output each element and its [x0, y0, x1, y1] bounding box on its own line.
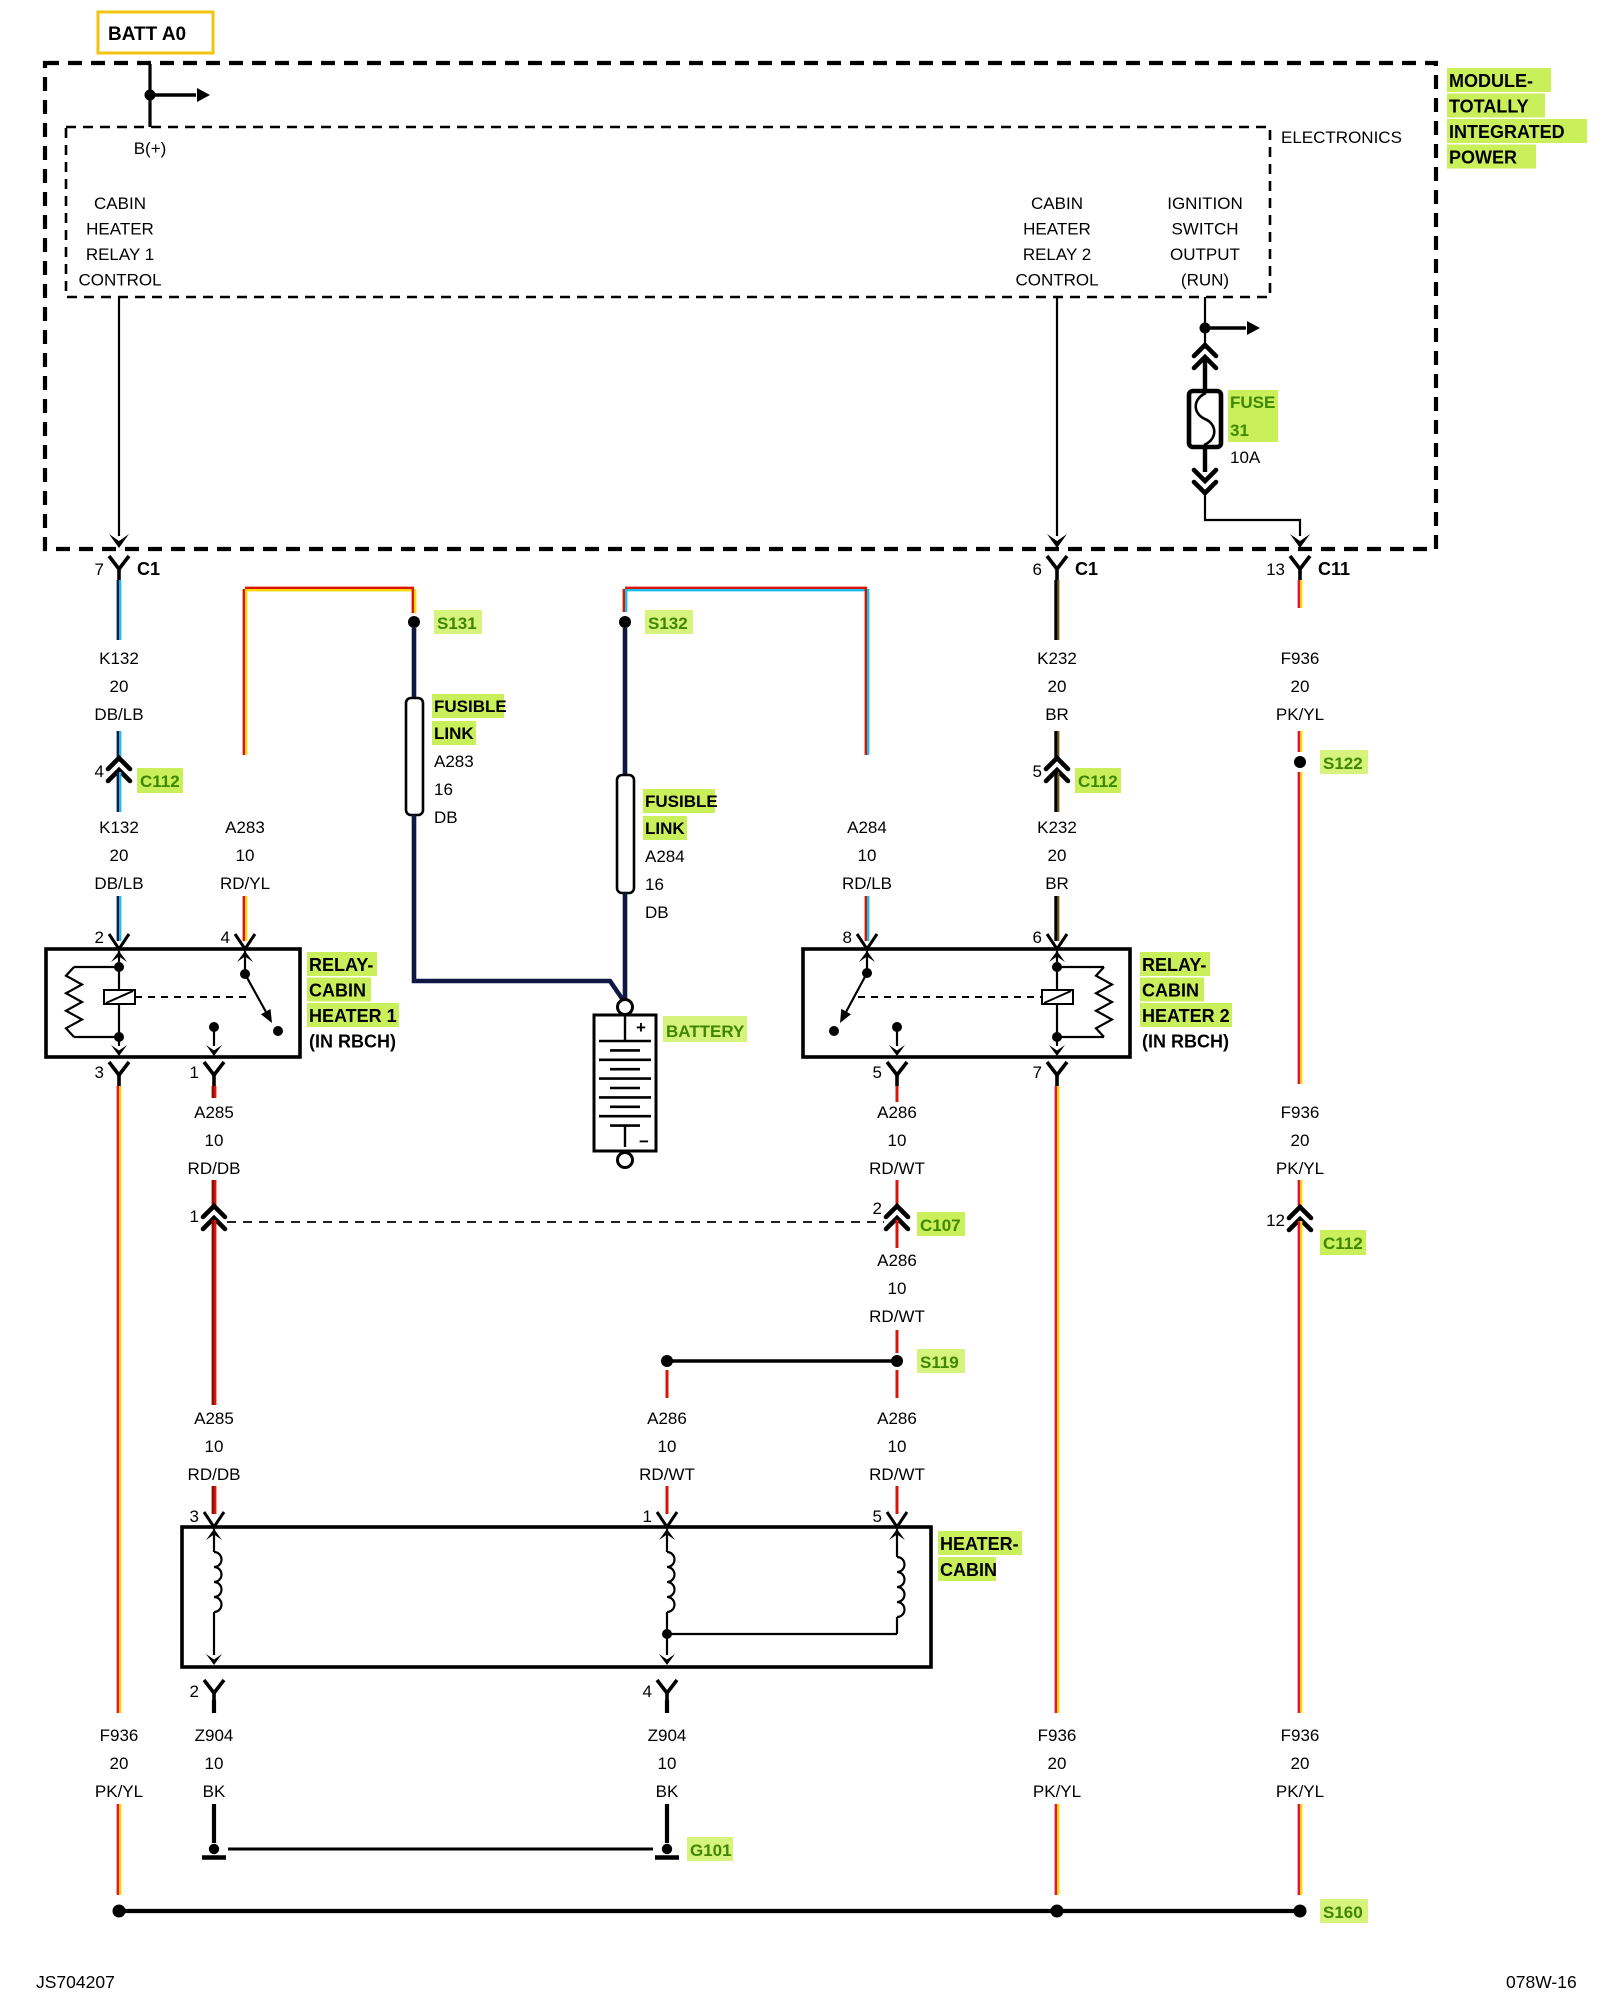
svg-text:HEATER: HEATER: [1023, 220, 1091, 239]
svg-text:BK: BK: [656, 1782, 679, 1801]
wire label A285 10 RD/DB: [188, 1103, 241, 1178]
svg-text:RD/DB: RD/DB: [188, 1159, 241, 1178]
relay 2 coil branch pin 6: [1049, 951, 1065, 972]
relay U1 RELAY-CABIN HEATER 1 body: [46, 949, 300, 1057]
in-line connector above fuse 31: [1194, 328, 1216, 391]
svg-text:C112: C112: [1323, 1234, 1363, 1253]
svg-text:RELAY 2: RELAY 2: [1023, 245, 1091, 264]
ground bus wire: [228, 1848, 653, 1851]
connector pin 1 of relay 1: [190, 1062, 224, 1086]
label RELAY-CABIN HEATER 2 (IN RBCH): [1140, 952, 1232, 1052]
wire DB from S132 to fusible link A284: [623, 628, 628, 775]
svg-text:(IN RBCH): (IN RBCH): [309, 1032, 396, 1052]
wire A286 into connector C107 pin 2: [896, 1180, 899, 1206]
battery G1: [594, 1015, 656, 1151]
svg-text:078W-16: 078W-16: [1506, 1972, 1577, 1992]
svg-text:LINK: LINK: [645, 819, 685, 838]
svg-text:A286: A286: [877, 1103, 917, 1122]
svg-text:10: 10: [858, 846, 877, 865]
svg-text:TOTALLY: TOTALLY: [1449, 97, 1529, 117]
wire label F936 20 PK/YL: [1276, 649, 1324, 724]
connector C107 dashed pairing line: [227, 1221, 884, 1223]
svg-text:S119: S119: [920, 1353, 959, 1372]
splice S132: [619, 616, 631, 628]
relay 1 coil resistor: [66, 967, 119, 1037]
in-line connector below fuse 31: [1194, 447, 1216, 493]
wire A286 below S119 left: [666, 1370, 669, 1398]
svg-text:CONTROL: CONTROL: [1015, 271, 1098, 290]
svg-text:FUSE: FUSE: [1230, 393, 1275, 412]
svg-text:DB/LB: DB/LB: [94, 874, 143, 893]
svg-text:S132: S132: [648, 614, 688, 633]
connector pin 2 of relay cabin heater 1: [95, 928, 129, 949]
wire cabin heater relay 2 control to pin 6 C1: [1047, 297, 1067, 548]
pin function label CABIN HEATER RELAY 1 CONTROL: [78, 194, 161, 290]
relay 1 control dashed link: [135, 996, 248, 998]
connector pin 6 of relay 2: [1033, 928, 1067, 949]
svg-text:POWER: POWER: [1449, 148, 1517, 168]
svg-text:10: 10: [888, 1131, 907, 1150]
value label 10A: [1230, 448, 1261, 467]
connector pin 1 of C107: [190, 1206, 225, 1229]
svg-text:RD/DB: RD/DB: [188, 1465, 241, 1484]
wire F936 20 PK/YL from pin 13 C11: [1299, 580, 1301, 608]
wire label A284 10 RD/LB: [842, 818, 892, 893]
wire A283 10 RD/YL from splice S131 to relay pin 4: [244, 588, 415, 755]
svg-text:A286: A286: [877, 1251, 917, 1270]
inner dashed box - electronics section: [66, 127, 1270, 297]
svg-text:RD/YL: RD/YL: [220, 874, 270, 893]
label ELECTRONICS: [1281, 128, 1402, 147]
node junction ignition run feed: [1200, 323, 1211, 334]
svg-text:1: 1: [190, 1063, 199, 1082]
svg-text:−: −: [639, 1132, 649, 1151]
connector pin 2 of heater: [190, 1680, 224, 1704]
module outline - Totally Integrated Power Module (dashed): [45, 63, 1436, 549]
label BATTERY: [663, 1016, 747, 1042]
svg-text:RELAY 1: RELAY 1: [86, 245, 154, 264]
svg-text:DB: DB: [434, 808, 458, 827]
wire label A285 10 RD/DB lower: [188, 1409, 241, 1484]
svg-text:31: 31: [1230, 421, 1249, 440]
connector pin 3 of heater: [190, 1507, 224, 1527]
wire label A283 10 RD/YL: [220, 818, 270, 893]
svg-text:10: 10: [658, 1754, 677, 1773]
wire Z904 into ground G101 left: [212, 1804, 216, 1843]
wire Z904 10 BK from heater pin 2: [212, 1700, 216, 1713]
wire F936 into splice S122: [1299, 731, 1301, 752]
connector pin 13 of C11: [1266, 556, 1350, 580]
svg-text:16: 16: [434, 780, 453, 799]
svg-text:INTEGRATED: INTEGRATED: [1449, 122, 1565, 142]
battery negative terminal: [618, 1153, 633, 1168]
svg-text:A286: A286: [647, 1409, 687, 1428]
svg-text:CABIN: CABIN: [309, 981, 366, 1001]
svg-text:4: 4: [643, 1682, 652, 1701]
label S122: [1320, 750, 1368, 774]
wire label A286 10 RD/WT lower middle: [639, 1409, 695, 1484]
svg-text:S160: S160: [1323, 1903, 1363, 1922]
svg-text:C112: C112: [140, 772, 180, 791]
svg-text:G101: G101: [690, 1841, 732, 1860]
heater element 2 (pin 1 to pin 4): [659, 1529, 675, 1665]
svg-text:A284: A284: [645, 847, 685, 866]
connector pin 6 of C1: [1033, 556, 1098, 580]
svg-text:ELECTRONICS: ELECTRONICS: [1281, 128, 1402, 147]
wire label F936 20 PK/YL bottom right: [1276, 1726, 1324, 1801]
svg-text:C1: C1: [137, 559, 160, 579]
svg-text:RELAY-: RELAY-: [1142, 955, 1206, 975]
wire A285 into connector C107 pin 1: [213, 1180, 215, 1206]
sheet number JS704207: [36, 1972, 115, 1992]
svg-text:S122: S122: [1323, 754, 1363, 773]
svg-text:HEATER 2: HEATER 2: [1142, 1006, 1230, 1026]
svg-text:F936: F936: [1038, 1726, 1077, 1745]
connector pin 4 of C112: [95, 758, 183, 793]
svg-text:20: 20: [110, 846, 129, 865]
relay 2 coil to pin 7: [1049, 1037, 1065, 1056]
svg-text:HEATER: HEATER: [86, 220, 154, 239]
svg-text:7: 7: [1033, 1063, 1042, 1082]
connector pin 5 of heater: [873, 1507, 907, 1527]
wire A285 10 RD/DB from relay 1 pin 1: [213, 1086, 215, 1098]
wire label K132 20 DB/LB: [94, 649, 143, 724]
connector pin 4 of heater: [643, 1680, 677, 1704]
ground G101 right terminal: [655, 1844, 679, 1858]
svg-text:F936: F936: [1281, 1103, 1320, 1122]
wire A283 into relay pin 4: [244, 896, 246, 941]
wire DB from S131 to fusible link A283: [412, 628, 417, 698]
relay 1 coil element: [104, 967, 135, 1042]
relay 1 coil branch pin 2: [111, 951, 127, 972]
wire label Z904 10 BK left: [195, 1726, 234, 1801]
wire DB from fusible link A283 to battery: [414, 815, 623, 1000]
heater element HEATER-CABIN body: [182, 1527, 931, 1667]
wire F936 from S122 down: [1299, 772, 1301, 1084]
svg-text:OUTPUT: OUTPUT: [1170, 245, 1240, 264]
connector pin 1 of heater: [643, 1507, 677, 1527]
wire A286 into heater pin 1: [666, 1486, 669, 1514]
svg-text:SWITCH: SWITCH: [1171, 220, 1238, 239]
svg-text:CABIN: CABIN: [940, 1560, 997, 1580]
svg-text:K132: K132: [99, 818, 139, 837]
splice S131: [408, 616, 420, 628]
node junction on B(+) feed: [145, 90, 156, 101]
splice S122: [1294, 756, 1306, 768]
wire Z904 10 BK from heater pin 4: [665, 1700, 669, 1713]
label G101: [687, 1837, 733, 1861]
connector pin 5 of C112: [1033, 758, 1121, 793]
svg-text:A283: A283: [434, 752, 474, 771]
wire label K232 20 BR: [1037, 649, 1077, 724]
svg-text:10: 10: [236, 846, 255, 865]
svg-text:20: 20: [1048, 677, 1067, 696]
label S119: [917, 1349, 965, 1373]
svg-text:10: 10: [888, 1279, 907, 1298]
label MODULE-TOTALLY INTEGRATED POWER: [1447, 68, 1587, 169]
fuse 31 10A: [1189, 391, 1221, 447]
connector pin 4 of relay cabin heater 1: [221, 928, 255, 949]
svg-text:C112: C112: [1078, 772, 1118, 791]
svg-text:JS704207: JS704207: [36, 1972, 115, 1992]
wire label F936 20 PK/YL bottom mid: [1033, 1726, 1081, 1801]
svg-text:5: 5: [873, 1063, 882, 1082]
svg-text:CONTROL: CONTROL: [78, 271, 161, 290]
wire label A286 10 RD/WT mid: [869, 1251, 925, 1326]
svg-text:FUSIBLE: FUSIBLE: [434, 697, 507, 716]
svg-text:PK/YL: PK/YL: [95, 1782, 143, 1801]
wire A286 from C107 down: [896, 1220, 899, 1248]
svg-text:Z904: Z904: [648, 1726, 687, 1745]
label S160: [1320, 1899, 1368, 1923]
svg-text:2: 2: [95, 928, 104, 947]
svg-text:20: 20: [1048, 846, 1067, 865]
svg-text:IGNITION: IGNITION: [1167, 194, 1243, 213]
connector pin 12 of C112: [1266, 1207, 1366, 1255]
label S132: [645, 610, 693, 634]
splice S119 bus: [661, 1355, 903, 1367]
svg-text:7: 7: [95, 560, 104, 579]
svg-text:RELAY-: RELAY-: [309, 955, 373, 975]
svg-text:DB: DB: [645, 903, 669, 922]
wire K232 into connector C112: [1056, 731, 1059, 758]
svg-text:20: 20: [1048, 1754, 1067, 1773]
svg-text:F936: F936: [1281, 649, 1320, 668]
relay 1 switch common pin 4: [237, 951, 253, 979]
svg-text:20: 20: [1291, 677, 1310, 696]
svg-text:RD/WT: RD/WT: [869, 1307, 925, 1326]
pin function label CABIN HEATER RELAY 2 CONTROL: [1015, 194, 1098, 290]
connector pin 8 of relay 2: [843, 928, 877, 949]
relay 2 switch common pin 8: [859, 951, 875, 978]
svg-text:(IN RBCH): (IN RBCH): [1142, 1032, 1229, 1052]
svg-text:2: 2: [190, 1682, 199, 1701]
connector pin 2 of C107: [873, 1199, 965, 1236]
svg-text:A284: A284: [847, 818, 887, 837]
label FUSE 31: [1228, 390, 1278, 442]
svg-text:8: 8: [843, 928, 852, 947]
svg-text:10: 10: [205, 1437, 224, 1456]
svg-text:FUSIBLE: FUSIBLE: [645, 792, 718, 811]
svg-text:10: 10: [205, 1131, 224, 1150]
svg-text:20: 20: [110, 1754, 129, 1773]
heater element 3 (pin 5): [667, 1529, 905, 1634]
svg-text:RD/WT: RD/WT: [639, 1465, 695, 1484]
wire A286 10 RD/WT from relay 2 pin 5: [896, 1086, 899, 1102]
svg-text:12: 12: [1266, 1211, 1285, 1230]
label S131: [434, 610, 482, 634]
svg-text:10A: 10A: [1230, 448, 1261, 467]
svg-text:(RUN): (RUN): [1181, 271, 1229, 290]
svg-text:2: 2: [873, 1199, 882, 1218]
relay 1 output pin 1: [206, 1022, 222, 1056]
svg-text:BR: BR: [1045, 705, 1069, 724]
svg-text:DB/LB: DB/LB: [94, 705, 143, 724]
wire cabin heater relay 1 control to pin 7 C1: [109, 297, 129, 548]
wire label A286 10 RD/WT lower right: [869, 1409, 925, 1484]
connector pin 7 of C1: [95, 556, 160, 580]
svg-text:16: 16: [645, 875, 664, 894]
wire F936 into S160 right: [1299, 1804, 1301, 1895]
svg-text:S131: S131: [437, 614, 477, 633]
svg-text:F936: F936: [100, 1726, 139, 1745]
wire K132 below C112: [118, 772, 120, 812]
svg-text:10: 10: [658, 1437, 677, 1456]
wire A285 into heater pin 3: [213, 1486, 215, 1514]
relay 2 switch blade: [829, 973, 867, 1036]
wire label K132 20 DB/LB lower: [94, 818, 143, 893]
svg-text:6: 6: [1033, 928, 1042, 947]
svg-text:K232: K232: [1037, 649, 1077, 668]
svg-text:1: 1: [190, 1207, 199, 1226]
svg-text:F936: F936: [1281, 1726, 1320, 1745]
wire label Z904 10 BK right: [648, 1726, 687, 1801]
label FUSIBLE LINK A284 16 DB: [643, 789, 718, 922]
svg-text:PK/YL: PK/YL: [1276, 1782, 1324, 1801]
wire F936 into S160 mid: [1056, 1804, 1058, 1895]
connector pin 3 of relay 1: [95, 1062, 129, 1086]
connector pin 5 of relay 2: [873, 1062, 907, 1086]
wire F936 from C112 down to S160: [1299, 1221, 1301, 1713]
svg-text:20: 20: [1291, 1754, 1310, 1773]
svg-text:6: 6: [1033, 560, 1042, 579]
svg-text:PK/YL: PK/YL: [1276, 1159, 1324, 1178]
relay 2 control dashed link: [858, 996, 1042, 998]
svg-text:4: 4: [221, 928, 230, 947]
relay 2 coil resistor: [1057, 967, 1112, 1037]
label FUSIBLE LINK A283 16 DB: [432, 694, 507, 827]
svg-text:A285: A285: [194, 1409, 234, 1428]
svg-text:3: 3: [190, 1507, 199, 1526]
svg-text:K132: K132: [99, 649, 139, 668]
svg-text:C11: C11: [1318, 559, 1350, 579]
svg-text:5: 5: [1033, 762, 1042, 781]
wire fuse 31 output to pin 13 C11: [1205, 493, 1310, 548]
wire ignition switch output (run): [1204, 297, 1206, 328]
wire label F936 20 PK/YL bottom left: [95, 1726, 143, 1801]
splice S160 bus: [113, 1905, 1307, 1918]
arrow to other circuits from B(+): [150, 88, 210, 102]
wire K132 into relay pin 2: [118, 896, 120, 941]
svg-text:10: 10: [205, 1754, 224, 1773]
wire A284 into relay pin 8: [866, 896, 868, 941]
svg-text:+: +: [636, 1018, 646, 1037]
svg-text:B(+): B(+): [134, 139, 167, 158]
fusible link A284 body: [617, 775, 634, 893]
relay 1 switch blade: [245, 974, 283, 1036]
svg-text:CABIN: CABIN: [94, 194, 146, 213]
label HEATER-CABIN: [938, 1531, 1022, 1581]
svg-text:10: 10: [888, 1437, 907, 1456]
wire F936 20 PK/YL from relay 2 pin 7: [1056, 1086, 1058, 1713]
wire DB from fusible link A284 to battery: [623, 893, 628, 1000]
svg-text:PK/YL: PK/YL: [1033, 1782, 1081, 1801]
arrow to other circuits from run feed: [1205, 321, 1260, 335]
svg-text:MODULE-: MODULE-: [1449, 71, 1533, 91]
svg-text:4: 4: [95, 762, 104, 781]
wire K232 into relay pin 6: [1056, 896, 1059, 941]
wire Z904 into ground G101 right: [665, 1804, 669, 1843]
wire A286 below S119 right: [896, 1370, 899, 1398]
wire A284 10 RD/LB from splice S132 to relay pin 8: [624, 588, 868, 755]
ground G101 left terminal: [202, 1844, 226, 1858]
svg-text:CABIN: CABIN: [1142, 981, 1199, 1001]
svg-text:HEATER 1: HEATER 1: [309, 1006, 397, 1026]
wire F936 20 PK/YL from relay 1 pin 3: [118, 1086, 120, 1713]
sheet code 078W-16: [1506, 1972, 1577, 1992]
svg-text:K232: K232: [1037, 818, 1077, 837]
battery positive terminal: [618, 1000, 633, 1015]
wire K232 20 BR upper segment: [1056, 580, 1059, 640]
svg-text:BR: BR: [1045, 874, 1069, 893]
wire label A286 10 RD/WT: [869, 1103, 925, 1178]
svg-text:C1: C1: [1075, 559, 1098, 579]
svg-text:RD/WT: RD/WT: [869, 1159, 925, 1178]
pin function label IGNITION SWITCH OUTPUT (RUN): [1167, 194, 1243, 290]
wire K232 below C112: [1056, 772, 1059, 812]
svg-text:13: 13: [1266, 560, 1285, 579]
svg-text:20: 20: [110, 677, 129, 696]
connector pin 7 of relay 2: [1033, 1062, 1067, 1086]
relay 2 coil element: [1042, 967, 1073, 1042]
wire F936 into S160 left: [118, 1804, 120, 1895]
label RELAY-CABIN HEATER 1 (IN RBCH): [307, 952, 399, 1052]
svg-text:BATT A0: BATT A0: [108, 24, 186, 45]
svg-text:LINK: LINK: [434, 724, 474, 743]
svg-text:BK: BK: [203, 1782, 226, 1801]
wire K132 into connector C112: [118, 731, 120, 758]
wire A285 from C107 down: [213, 1220, 215, 1405]
svg-text:C107: C107: [920, 1216, 961, 1235]
svg-text:5: 5: [873, 1507, 882, 1526]
svg-text:1: 1: [643, 1507, 652, 1526]
svg-text:A286: A286: [877, 1409, 917, 1428]
wire A286 into splice S119: [896, 1330, 899, 1353]
relay U2 RELAY-CABIN HEATER 2 body: [803, 949, 1130, 1057]
power feed label BATT A0: [98, 12, 213, 53]
wire label K232 20 BR lower: [1037, 818, 1077, 893]
heater element 1 (pin 3 to pin 2): [206, 1529, 222, 1665]
svg-text:20: 20: [1291, 1131, 1310, 1150]
svg-text:HEATER-: HEATER-: [940, 1534, 1019, 1554]
fusible link A283 body: [406, 698, 423, 815]
wire F936 into connector C112 pin 12: [1299, 1180, 1301, 1207]
svg-text:BATTERY: BATTERY: [666, 1022, 745, 1041]
relay 2 output pin 5: [889, 1022, 905, 1056]
wire K132 20 DB/LB upper segment: [118, 580, 120, 640]
pin label B(+): [134, 139, 167, 158]
svg-text:CABIN: CABIN: [1031, 194, 1083, 213]
wire B(+) feed from BATT A0: [148, 64, 151, 127]
svg-text:RD/LB: RD/LB: [842, 874, 892, 893]
svg-text:3: 3: [95, 1063, 104, 1082]
relay 1 coil to pin 3: [111, 1037, 127, 1056]
wire A286 into heater pin 5: [896, 1486, 899, 1514]
svg-text:RD/WT: RD/WT: [869, 1465, 925, 1484]
svg-text:A283: A283: [225, 818, 265, 837]
svg-text:PK/YL: PK/YL: [1276, 705, 1324, 724]
svg-text:A285: A285: [194, 1103, 234, 1122]
wire label F936 20 PK/YL mid: [1276, 1103, 1324, 1178]
svg-text:Z904: Z904: [195, 1726, 234, 1745]
